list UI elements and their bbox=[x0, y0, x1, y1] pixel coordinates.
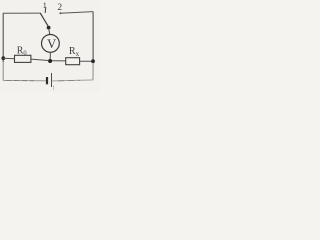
wire: right border vertical upper bbox=[92, 12, 94, 62]
resistor R0 (box) bbox=[15, 55, 31, 62]
wire: junction to voltmeter top bbox=[49, 29, 50, 35]
wire: top-left horizontal bbox=[3, 12, 41, 14]
wire: left border vertical upper bbox=[2, 13, 4, 62]
wire: left border vertical lower bbox=[2, 62, 4, 80]
switch contact 2 blob bbox=[59, 12, 61, 14]
paper background bbox=[0, 0, 100, 92]
wire: left border to R0 bbox=[3, 57, 14, 60]
wire: battery to bottom right bbox=[52, 80, 93, 81]
resistor Rx (box) bbox=[66, 58, 80, 65]
wire: R0 to center junction bbox=[31, 59, 48, 60]
voltmeter V (circle) bbox=[42, 35, 60, 53]
node: junction above voltmeter bbox=[47, 26, 51, 30]
node: right junction on border bbox=[91, 59, 95, 63]
node: left junction on border bbox=[1, 56, 5, 60]
wire: bottom left to battery bbox=[3, 79, 46, 81]
scan grain overlay bbox=[0, 0, 100, 92]
node: center junction on middle wire bbox=[48, 59, 52, 63]
stray faint mark below battery bbox=[52, 85, 54, 90]
wire: bottom left darker dashes bbox=[6, 79, 34, 81]
wire: center junction to Rx bbox=[52, 60, 66, 62]
battery positive plate (long thin) bbox=[51, 73, 53, 87]
switch contact 1 tick bbox=[44, 7, 47, 13]
wire: bottom right darker dashes bbox=[58, 79, 80, 82]
wire: voltmeter bottom lead bbox=[49, 52, 51, 59]
wire: contact 2 to right border bbox=[60, 12, 93, 14]
battery negative plate (short thick) bbox=[46, 77, 48, 84]
wire: Rx to right border bbox=[80, 60, 94, 62]
wire: right border vertical lower bbox=[92, 62, 94, 80]
switch S lever bbox=[40, 13, 48, 26]
